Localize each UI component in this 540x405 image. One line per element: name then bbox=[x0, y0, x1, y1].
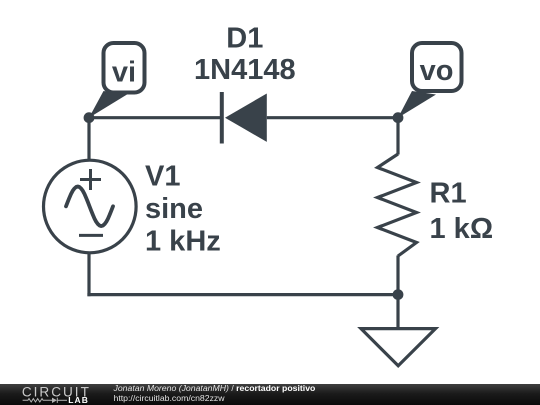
node label vo bbox=[398, 43, 462, 118]
V1 minus sign bbox=[79, 234, 103, 237]
node dot ground junction bbox=[393, 289, 404, 300]
wire: ground node to ground symbol bbox=[396, 295, 399, 329]
diode D1 triangle bbox=[225, 94, 267, 142]
node label vi bbox=[89, 43, 145, 118]
svg-text:1 kΩ: 1 kΩ bbox=[430, 213, 494, 245]
ground bbox=[361, 329, 436, 366]
node dot vo bbox=[393, 112, 404, 123]
CircuitLab logo bbox=[0, 384, 110, 405]
footer bar bbox=[0, 384, 540, 405]
V1 sine wave bbox=[66, 187, 113, 227]
wire: diode anode to vo node bbox=[267, 116, 398, 119]
V1 plus sign bbox=[80, 169, 101, 190]
wire: bottom rail bbox=[87, 293, 398, 296]
svg-text:1N4148: 1N4148 bbox=[194, 54, 296, 86]
svg-text:LAB: LAB bbox=[68, 395, 89, 405]
svg-text:1 kHz: 1 kHz bbox=[145, 226, 221, 258]
svg-text:sine: sine bbox=[145, 193, 203, 225]
svg-text:vo: vo bbox=[420, 55, 454, 87]
svg-text:R1: R1 bbox=[430, 177, 467, 209]
resistor R1 zigzag bbox=[378, 154, 417, 256]
svg-text:vi: vi bbox=[112, 57, 136, 89]
voltage source V1 body bbox=[44, 160, 137, 253]
wire: vo node down to R1 bbox=[396, 118, 399, 155]
diode D1 cathode bar bbox=[220, 92, 224, 144]
wire: V1 bottom to bottom rail bbox=[87, 252, 90, 296]
wire: vi node to V1 top bbox=[87, 118, 90, 161]
attribution text bbox=[114, 383, 316, 404]
svg-text:V1: V1 bbox=[145, 160, 180, 192]
svg-text:D1: D1 bbox=[226, 23, 263, 55]
wire: R1 to ground node bbox=[396, 256, 399, 295]
wire: vi node to diode cathode bbox=[89, 116, 222, 119]
node dot vi bbox=[84, 112, 95, 123]
